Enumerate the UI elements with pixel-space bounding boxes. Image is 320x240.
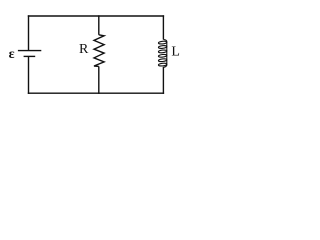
inductor L coil top connector xyxy=(163,40,166,42)
svg-text:R: R xyxy=(79,42,89,57)
battery emf source: short plate xyxy=(24,55,36,57)
resistor R zigzag xyxy=(94,35,104,67)
inductor L coil turn 2 xyxy=(158,45,167,48)
inductor L coil bottom connector xyxy=(163,65,166,67)
inductor L coil turn 6 xyxy=(158,63,167,66)
wire top xyxy=(28,15,164,17)
inductor L coil turn 5 xyxy=(158,58,167,61)
wire left upper (to battery) xyxy=(28,15,30,50)
inductor L coil turn 1 xyxy=(158,41,167,44)
svg-text:ε: ε xyxy=(9,47,15,62)
wire left lower (from battery) xyxy=(28,56,30,94)
inductor L coil turn 4 xyxy=(158,54,167,57)
wire middle branch upper (node junction top) xyxy=(98,15,100,35)
svg-text:L: L xyxy=(171,45,180,60)
wire right upper (to inductor) xyxy=(162,15,164,39)
inductor L coil right-side spine xyxy=(166,42,168,66)
wire right lower (from inductor) xyxy=(162,67,164,94)
battery emf source: long plate xyxy=(18,50,41,52)
wire middle branch lower (node junction bottom) xyxy=(98,66,100,94)
inductor L coil turn 3 xyxy=(158,50,167,53)
wire bottom xyxy=(28,92,164,94)
